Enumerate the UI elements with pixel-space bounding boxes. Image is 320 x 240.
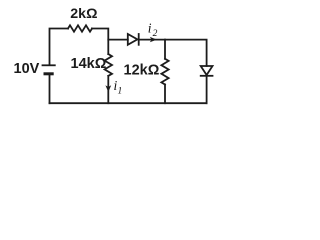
svg-text:2kΩ: 2kΩ: [70, 6, 97, 22]
wire top rail left segment: [50, 29, 69, 65]
battery V1 short plate: [45, 72, 52, 75]
resistor R3 12k zigzag: [161, 59, 168, 85]
diode D1 cathode bar: [138, 34, 140, 45]
wire top rail right segment to node: [92, 29, 108, 55]
wire battery negative to bottom rail: [49, 74, 51, 103]
svg-text:12kΩ: 12kΩ: [124, 63, 160, 79]
wire cathode to right corner: [139, 40, 207, 66]
svg-text:1: 1: [118, 87, 123, 97]
wire bottom rail: [50, 102, 207, 104]
diode D2 triangle: [201, 66, 213, 75]
wire D2 to bottom rail: [206, 76, 208, 103]
arrow i2 head: [150, 37, 157, 42]
svg-text:14kΩ: 14kΩ: [71, 56, 107, 72]
battery V1 long plate: [43, 64, 55, 66]
svg-text:i: i: [148, 20, 152, 35]
resistor R2 14k zigzag: [105, 54, 112, 76]
svg-text:2: 2: [153, 29, 158, 39]
resistor R1 2k zigzag: [68, 25, 92, 31]
wire 12k branch top: [164, 40, 166, 59]
wire diode branch anode: [108, 39, 128, 41]
arrow i1 head: [105, 37, 157, 92]
diode D2 cathode bar: [201, 75, 213, 77]
svg-text:10V: 10V: [14, 61, 40, 77]
wire 14k bottom to bottom rail: [107, 76, 109, 103]
wire 12k bottom: [164, 85, 166, 104]
diode D1 triangle: [128, 34, 138, 45]
